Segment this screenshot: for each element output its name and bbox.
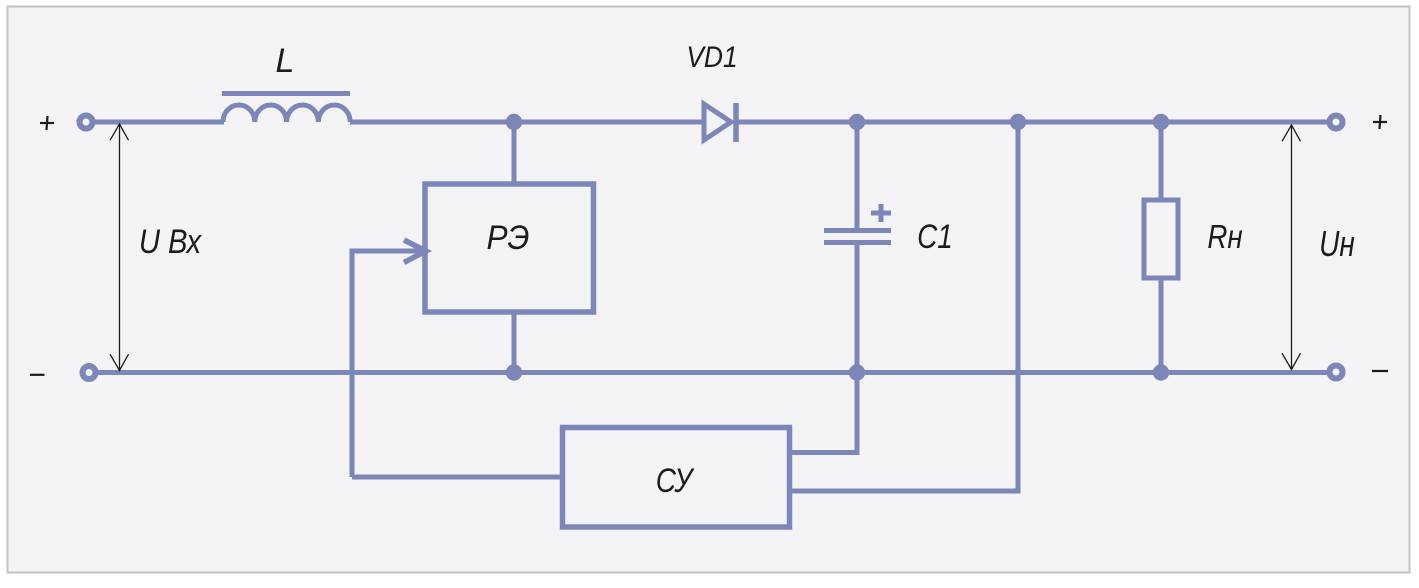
terminal - input: [83, 366, 96, 379]
terminal + output: [1330, 116, 1343, 129]
wire: Rn bottom lead: [1159, 278, 1164, 373]
svg-text:C1: C1: [917, 217, 953, 255]
node F top rail above Rn: [1153, 114, 1169, 130]
node D bottom rail below C1: [849, 364, 865, 380]
wire: C1 top lead: [855, 122, 860, 229]
node C top rail above C1: [849, 114, 865, 130]
wire: SU upper output to bottom rail: [789, 373, 857, 453]
wire: C1 bottom lead: [855, 244, 860, 373]
node A top rail above RE: [506, 114, 522, 130]
wire: RE top connection: [512, 122, 517, 186]
capacitor C1 polarity plus: [871, 204, 891, 222]
dimension arrow Un: [1282, 125, 1301, 370]
svg-text:СУ: СУ: [656, 461, 695, 499]
svg-text:U Вх: U Вх: [139, 222, 202, 261]
wire: top rail left segment: [94, 120, 224, 125]
wire: top rail diode to right terminal: [736, 120, 1328, 125]
svg-text:VD1: VD1: [686, 39, 737, 73]
inductor L winding: [223, 105, 350, 122]
plus sign input: [40, 116, 54, 130]
terminal + input: [80, 116, 93, 129]
resistor Rn: [1144, 200, 1178, 278]
wire: bottom rail: [97, 370, 1328, 375]
dimension arrow U vx: [110, 124, 129, 371]
svg-text:Rн: Rн: [1207, 219, 1242, 256]
node E top rail feedback tap: [1010, 114, 1026, 130]
node G bottom rail below Rn: [1153, 364, 1169, 380]
svg-text:Uн: Uн: [1319, 224, 1355, 264]
svg-text:РЭ: РЭ: [486, 218, 529, 256]
capacitor C1 top plate: [824, 228, 891, 233]
inductor L core bar: [222, 91, 350, 96]
diode VD1 triangle: [704, 104, 731, 140]
wire: Rn top lead: [1159, 122, 1164, 202]
minus sign input: [30, 374, 45, 376]
block RE (regulating element): [425, 184, 594, 312]
svg-text:L: L: [276, 42, 295, 80]
capacitor C1 bottom plate: [824, 240, 891, 245]
block SU (control unit): [563, 428, 790, 528]
diode VD1 cathode bar: [733, 103, 739, 142]
wire: top rail inductor to diode: [350, 120, 705, 125]
plus sign output: [1373, 115, 1387, 129]
terminal - output: [1330, 366, 1343, 379]
node B bottom rail below RE: [506, 364, 522, 380]
minus sign output: [1372, 370, 1388, 372]
arrowhead into RE: [404, 240, 426, 263]
wire: feedback arrow into RE: [352, 251, 421, 477]
wire: RE bottom connection: [512, 312, 517, 373]
wire: feedback tap down to SU: [789, 122, 1018, 491]
wire: SU input from feedback: [352, 475, 562, 480]
